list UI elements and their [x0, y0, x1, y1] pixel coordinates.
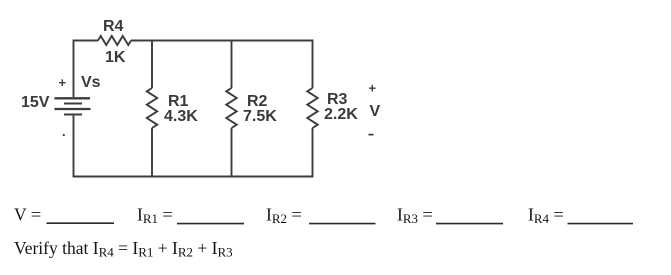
answer blank IR1 = [137, 205, 173, 227]
resistor R2 [226, 88, 236, 128]
answer blank IR2 = [266, 205, 302, 227]
wire: from battery - terminal down through bottom-left corner, bottom rail through nodes at R1 and R2, up to R3 bottom lead [74, 116, 313, 177]
svg-text:+: + [369, 81, 377, 96]
svg-text:+: + [59, 75, 67, 90]
answer blank V = [14, 205, 41, 225]
label R1 [168, 93, 189, 110]
resistor R4 [98, 36, 131, 45]
svg-text:IR1 =: IR1 = [137, 205, 173, 227]
svg-text:R4: R4 [103, 18, 124, 35]
svg-text:4.3K: 4.3K [164, 108, 198, 125]
label - (output polarity) [369, 134, 374, 136]
wire: top rail from R4 right lead through nodes at R1 and R2 to top-right corner, down to R3 top lead [131, 41, 313, 89]
resistor R3 [307, 88, 317, 128]
answer blank IR3 = [397, 205, 433, 227]
value label 4.3K [164, 108, 198, 125]
svg-text:15V: 15V [21, 94, 50, 111]
answer blank line for IR1 [177, 223, 244, 225]
svg-text:7.5K: 7.5K [243, 108, 277, 125]
svg-text:V =: V = [14, 205, 41, 225]
value label 7.5K [243, 108, 277, 125]
label - (battery negative dot) [62, 124, 66, 139]
svg-text:2.2K: 2.2K [324, 106, 358, 123]
svg-text:IR4 =: IR4 = [528, 205, 564, 227]
label V (output voltage) [370, 103, 381, 120]
value label 2.2K [324, 106, 358, 123]
wire: R2 branch bottom lead from resistor down to bottom wire [231, 128, 233, 177]
svg-text:.: . [62, 124, 66, 139]
battery Vs [55, 98, 91, 114]
instruction text: Verify that IR4 = IR1 + IR2 + IR3 [14, 238, 233, 260]
resistor R1 [147, 88, 157, 128]
svg-text:1K: 1K [105, 49, 126, 66]
wire: R1 branch top lead from top wire down to resistor [151, 41, 153, 89]
answer blank line for IR2 [309, 223, 376, 225]
answer blank IR4 = [528, 205, 564, 227]
label R2 [247, 93, 268, 110]
label R3 [327, 91, 348, 108]
wire: R1 branch bottom lead from resistor down to bottom wire [151, 128, 153, 177]
label R4 [103, 18, 124, 35]
wire: from battery + terminal up through top-left corner to R4 left lead [74, 41, 99, 98]
svg-text:V: V [370, 103, 381, 120]
answer blank line for V [47, 222, 115, 224]
label + (output polarity) [369, 81, 377, 96]
value label 15V [21, 94, 50, 111]
answer blank line for IR4 [568, 223, 634, 225]
label Vs [81, 74, 101, 91]
svg-text:Verify that IR4 = IR1 + IR2 +: Verify that IR4 = IR1 + IR2 + IR3 [14, 238, 233, 260]
svg-text:IR3 =: IR3 = [397, 205, 433, 227]
wire: R2 branch top lead from top wire down to resistor [231, 41, 233, 89]
svg-text:IR2 =: IR2 = [266, 205, 302, 227]
svg-text:Vs: Vs [81, 74, 101, 91]
value label 1K [105, 49, 126, 66]
label + (battery positive) [59, 75, 67, 90]
answer blank line for IR3 [436, 223, 503, 225]
